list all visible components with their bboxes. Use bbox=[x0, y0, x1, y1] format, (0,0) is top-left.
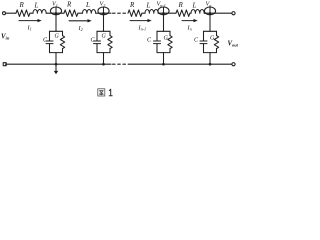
svg-text:R: R bbox=[66, 1, 72, 9]
svg-text:R: R bbox=[178, 1, 184, 9]
svg-text:R: R bbox=[129, 1, 135, 9]
svg-text:L: L bbox=[146, 2, 151, 10]
svg-text:L: L bbox=[85, 1, 90, 9]
svg-text:G: G bbox=[55, 33, 60, 39]
svg-text:R: R bbox=[19, 1, 25, 9]
svg-text:L: L bbox=[192, 2, 197, 10]
svg-text:G: G bbox=[102, 33, 107, 39]
svg-text:L: L bbox=[34, 2, 39, 10]
svg-text:G: G bbox=[210, 36, 215, 42]
svg-text:G: G bbox=[164, 36, 169, 42]
